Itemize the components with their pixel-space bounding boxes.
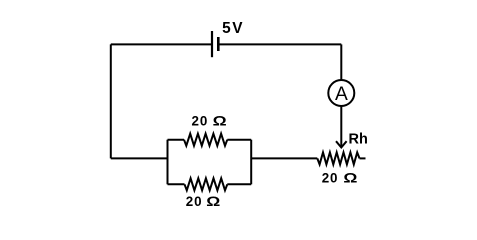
svg-text:Ω: Ω (343, 171, 357, 186)
wire bottom branch right lead (227, 183, 251, 185)
wire parallel box left vertical (167, 140, 169, 185)
wire top branch right lead (227, 139, 251, 141)
svg-text:5: 5 (222, 20, 231, 37)
wire bottom branch left lead (168, 183, 185, 185)
resistor R1 zigzag (top 20 ohm) (184, 134, 227, 146)
svg-text:Ω: Ω (213, 114, 227, 129)
wire right vertical to ammeter (340, 44, 342, 80)
resistor R2 zigzag (bottom 20 ohm) (185, 178, 228, 190)
wire top-left horizontal (111, 43, 212, 45)
wire left horizontal into parallel box (111, 157, 168, 159)
svg-text:Ω: Ω (206, 194, 220, 209)
svg-text:20: 20 (186, 194, 203, 209)
ammeter U1 circle (328, 80, 354, 106)
arrowhead onto rheostat wiper (336, 141, 347, 147)
svg-text:20: 20 (322, 170, 339, 185)
wire parallel box right vertical (250, 140, 252, 185)
wire top branch left lead (168, 139, 185, 141)
wire ammeter to arrow shaft (340, 106, 342, 147)
battery BT1 short plate (217, 37, 220, 51)
wire bottom middle (parallel box to rheostat) (251, 157, 317, 159)
svg-text:A: A (335, 84, 348, 105)
rheostat Rh zigzag (317, 152, 359, 164)
rheostat right tail (360, 157, 366, 159)
svg-text:Rh: Rh (349, 132, 368, 148)
svg-text:V: V (232, 20, 243, 37)
wire left vertical (110, 44, 112, 158)
battery BT1 long plate (211, 31, 213, 57)
svg-text:20: 20 (192, 114, 209, 129)
wire top-right horizontal (218, 43, 341, 45)
